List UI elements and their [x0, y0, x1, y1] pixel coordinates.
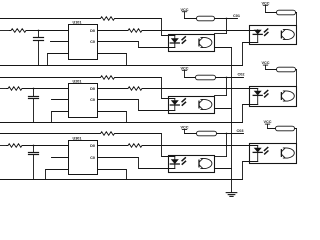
wire U301 pin 2 stub	[52, 157, 69, 159]
wire U201 pin 3 to ground rail	[52, 112, 69, 123]
wire ground rail row 2	[0, 122, 243, 124]
wire optocoupler U3B cathode to ground rail	[243, 162, 258, 180]
node D0/riser junction row 1	[226, 30, 228, 32]
phototransistor of U2A	[198, 101, 200, 108]
node C03 junction	[226, 133, 228, 135]
phototransistor of U1A	[198, 39, 200, 46]
resistor R32 (top rail series)	[99, 132, 116, 136]
svg-text:D0: D0	[90, 87, 95, 91]
wire U101 pin 2 stub	[51, 41, 69, 43]
svg-text:C0: C0	[90, 156, 95, 160]
capacitor C1 (input filter)	[38, 31, 40, 38]
wire common ground line	[231, 47, 233, 192]
photon arrows of U2A	[182, 99, 185, 102]
wire pull-up junction riser row 1	[226, 19, 228, 34]
resistor R25 (collector load)	[277, 67, 296, 72]
node D0/riser junction row 2	[226, 88, 228, 90]
wire top rail row 2	[0, 77, 99, 79]
phototransistor of U2B	[280, 93, 282, 100]
optocoupler U3A	[169, 156, 215, 173]
wire input row 3	[0, 145, 7, 147]
svg-text:VCC: VCC	[261, 61, 269, 65]
photon arrows of U1A	[182, 37, 185, 40]
resistor R22 (top rail series)	[99, 76, 116, 80]
wire U2A collector to D0/pull-up riser	[215, 95, 227, 97]
svg-text:VCC: VCC	[180, 8, 188, 12]
photon arrows of U1B	[265, 29, 268, 32]
svg-text:VCC: VCC	[180, 66, 188, 70]
LED of optocoupler U3B	[257, 146, 259, 148]
wire ground rail row 3	[0, 179, 243, 181]
wire input row 1	[0, 30, 10, 32]
node C02 junction	[226, 77, 228, 79]
wire top rail row 1	[0, 18, 99, 20]
wire U101 right ground pin	[98, 54, 127, 66]
wire D0 output row 2	[98, 88, 127, 90]
wire D0 net to optocoupler U3B anode	[144, 145, 258, 147]
wire U2A emitter to ground line	[215, 108, 232, 110]
resistor R21 (input series)	[7, 87, 24, 91]
wire VCC pull-up row 3	[185, 133, 244, 135]
resistor R13 (D0 series)	[127, 29, 144, 33]
wire D0 output row 3	[98, 145, 127, 147]
wire C0 output to optocoupler U3A cathode	[98, 158, 175, 169]
svg-text:C03: C03	[237, 129, 244, 133]
optocoupler U2B	[250, 87, 297, 107]
wire collector resistor to optocoupler U1B	[296, 13, 298, 26]
wire pull-up junction riser row 3	[226, 134, 228, 157]
wire U3A emitter to ground line	[215, 168, 232, 170]
wire U1A collector to D0/pull-up riser	[215, 33, 227, 35]
svg-text:VCC: VCC	[261, 1, 269, 5]
wire U1A emitter to ground line	[215, 47, 232, 49]
svg-text:C0: C0	[90, 98, 95, 102]
LED of optocoupler U3A	[174, 157, 176, 160]
LED of optocoupler U2A	[174, 99, 176, 101]
wire top rail to optocoupler LED anode row 2	[116, 78, 175, 99]
wire D0 net to optocoupler U1B anode	[144, 30, 258, 32]
optocoupler U1A	[169, 35, 215, 52]
node input/capacitor junction row 2	[33, 88, 35, 90]
wire C0 output to optocoupler U2A cathode	[98, 100, 175, 111]
wire D0 output row 1	[98, 30, 127, 32]
LED of optocoupler U1B	[257, 29, 259, 32]
svg-text:VCC: VCC	[263, 120, 271, 124]
wire input to U301 pin 1	[24, 145, 69, 147]
op-amp U201 (converter IC)	[69, 84, 98, 118]
photon arrows of U3A	[182, 158, 185, 161]
phototransistor of U1B	[280, 31, 282, 38]
optocoupler U2A	[169, 97, 215, 114]
resistor R33 (D0 series)	[127, 144, 144, 148]
wire collector resistor to optocoupler U3B	[296, 129, 298, 144]
svg-text:D0: D0	[90, 144, 95, 148]
resistor R24 (pull-up)	[196, 75, 216, 80]
LED of optocoupler U2B	[257, 89, 259, 91]
wire VCC to collector resistor row 3	[268, 128, 297, 130]
wire optocoupler U1B cathode to ground rail	[243, 43, 258, 66]
wire U3A collector to D0/pull-up riser	[215, 156, 227, 158]
svg-text:U201: U201	[72, 80, 81, 84]
svg-text:U301: U301	[72, 137, 81, 141]
op-amp U301 (converter IC)	[69, 141, 98, 175]
wire VCC to collector resistor row 1	[266, 12, 297, 14]
wire U201 pin 2 stub	[52, 99, 69, 101]
wire top rail to optocoupler LED anode row 3	[116, 134, 175, 157]
node input/capacitor junction row 3	[33, 145, 35, 147]
capacitor C3 (input filter)	[33, 146, 35, 153]
svg-text:C01: C01	[233, 14, 240, 18]
resistor R35 (collector load)	[276, 126, 295, 131]
wire optocoupler U2B cathode to ground rail	[243, 105, 258, 123]
wire top rail to optocoupler LED anode row 1	[116, 19, 175, 36]
photon arrows of U2B	[265, 91, 268, 94]
wire U301 right ground pin	[98, 170, 127, 180]
node input/capacitor junction row 1	[38, 30, 40, 32]
wire VCC pull-up row 2	[185, 77, 244, 79]
wire U301 pin 3 to ground rail	[46, 170, 69, 180]
svg-text:U101: U101	[72, 21, 81, 25]
op-amp U101 (converter IC)	[69, 25, 98, 60]
resistor R23 (D0 series)	[127, 87, 144, 91]
resistor R12 (top rail series)	[99, 17, 116, 21]
svg-text:C02: C02	[238, 73, 245, 77]
node D0/riser junction row 3	[226, 145, 228, 147]
wire pull-up junction riser row 2	[226, 78, 228, 96]
wire input to U201 pin 1	[24, 88, 69, 90]
wire input to U101 pin 1	[28, 30, 69, 32]
photon arrows of U3B	[265, 148, 268, 151]
wire top rail row 3	[0, 133, 99, 135]
ground	[226, 192, 237, 194]
wire VCC to collector resistor row 2	[266, 69, 297, 71]
svg-text:VCC: VCC	[180, 126, 188, 130]
svg-text:C0: C0	[90, 40, 95, 44]
resistor R15 (collector load)	[277, 10, 296, 15]
node C01 junction	[226, 18, 228, 20]
optocoupler U1B	[250, 26, 297, 45]
wire U101 pin 3 to ground rail	[48, 54, 69, 66]
wire U201 right ground pin	[98, 112, 127, 123]
wire VCC pull-up row 1	[185, 18, 238, 20]
capacitor C2 (input filter)	[33, 89, 35, 97]
wire ground rail row 1	[0, 65, 243, 67]
optocoupler U3B	[250, 144, 297, 164]
resistor R14 (pull-up)	[197, 16, 215, 21]
resistor R31 (input series)	[7, 144, 24, 148]
resistor R11 (input series)	[10, 29, 28, 33]
phototransistor of U3B	[280, 150, 282, 157]
wire D0 net to optocoupler U2B anode	[144, 88, 258, 90]
resistor R34 (pull-up)	[197, 131, 217, 136]
LED of optocoupler U1A	[174, 36, 176, 39]
wire C0 output to optocoupler U1A cathode	[98, 42, 175, 48]
wire collector resistor to optocoupler U2B	[296, 70, 298, 87]
phototransistor of U3A	[198, 160, 200, 167]
svg-text:D0: D0	[90, 29, 95, 33]
wire input row 2	[0, 88, 7, 90]
